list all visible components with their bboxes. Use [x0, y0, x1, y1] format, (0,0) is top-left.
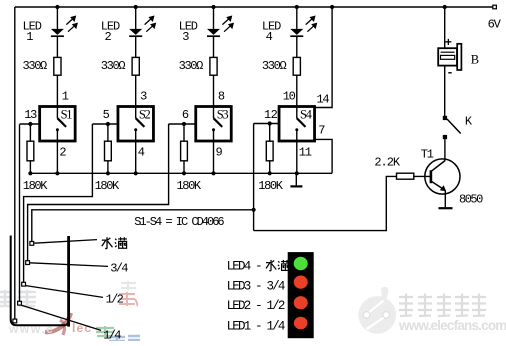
wire 180K to rail	[29, 161, 31, 174]
svg-text:5: 5	[103, 108, 110, 122]
node junction top rail LED2	[134, 5, 138, 9]
node control junction S4	[268, 121, 272, 125]
node pin14 on top rail	[330, 5, 334, 9]
switch S1 contacts	[56, 107, 66, 142]
leader 1/2	[26, 286, 103, 298]
LED D1 chain	[23, 5, 78, 107]
node 1/4 probe	[18, 301, 22, 305]
svg-text:www.elecfans.com: www.elecfans.com	[398, 318, 506, 333]
leader 3/4	[30, 263, 108, 267]
wire 180K to rail	[107, 161, 109, 174]
wire resistor to S4 box	[296, 75, 298, 106]
wire resistor to S1 box	[56, 75, 58, 106]
resistor 180K #4	[266, 141, 273, 161]
wire S4 pin 14 to +6V	[315, 7, 333, 108]
LED D4 chain	[262, 5, 317, 107]
wire S3 pin6 to 3/4 probe	[28, 124, 169, 261]
node 180K #4 on rail	[268, 171, 272, 175]
svg-text:180K: 180K	[23, 179, 48, 193]
LED LED3 symbol	[207, 29, 220, 35]
wire junction to 180K	[183, 124, 185, 141]
svg-text:330Ω: 330Ω	[262, 59, 287, 73]
node S4 output on rail	[295, 171, 299, 175]
node base-drive junction	[252, 208, 256, 212]
wire S1 control pin 13	[20, 123, 40, 125]
wire resistor to S3 box	[213, 75, 215, 106]
analog switch U1b S2 box	[118, 107, 154, 142]
node junction top rail LED3	[211, 5, 215, 9]
LED3 light arrows	[222, 16, 233, 31]
wire S2 control pin 5	[92, 123, 118, 125]
analog switch U1c S3 box	[196, 107, 232, 142]
wire S3 control pin 6	[169, 123, 196, 125]
wire S4 pin12 down	[253, 124, 255, 231]
resistor 330ohm #1	[54, 57, 61, 75]
node 1/2 probe	[22, 282, 26, 286]
svg-text:S1: S1	[61, 108, 73, 122]
watermark red swoosh	[45, 313, 71, 332]
wire to buzzer +	[444, 7, 446, 48]
wire +6V top rail	[15, 6, 493, 8]
watermark text dianzifashaoyou	[399, 294, 486, 317]
node junction top rail LED1	[55, 5, 59, 9]
svg-text:-: -	[446, 66, 452, 80]
svg-text:LED4 -: LED4 -	[227, 260, 262, 274]
node buzzer branch on top rail	[443, 5, 447, 9]
node 180K #1 on rail	[28, 171, 32, 175]
svg-text:S2: S2	[139, 108, 151, 122]
LED3 indicator (red)	[294, 276, 308, 289]
svg-text:LED1 - 1/4: LED1 - 1/4	[227, 320, 285, 334]
svg-text:12: 12	[264, 108, 278, 122]
wire S4 control pin 12	[254, 123, 279, 125]
analog switch U1d S4 box	[279, 107, 315, 142]
wire junction to 180K	[29, 124, 31, 141]
node full-level probe	[30, 242, 34, 246]
wire 180K to rail	[269, 161, 271, 174]
ground symbol (emitter)	[439, 207, 453, 209]
wire anode LED1	[56, 7, 58, 29]
wire LED2 cathode to resistor	[135, 36, 137, 57]
node control junction S1	[28, 122, 32, 126]
leader 1/4	[22, 305, 101, 330]
LED LED1 symbol	[51, 29, 64, 35]
buzzer B	[438, 44, 461, 70]
LED D2 chain	[101, 5, 156, 107]
watermark pink glyph near 1/2	[119, 292, 137, 306]
LED4 light arrows	[306, 16, 317, 31]
wire to 2.2K base resistor	[254, 176, 397, 230]
svg-text:lec: lec	[72, 321, 92, 335]
svg-text:6: 6	[182, 108, 189, 122]
svg-text:S3: S3	[217, 108, 229, 122]
wire K to collector	[444, 139, 446, 160]
svg-text:11: 11	[299, 145, 312, 159]
node S1 output on rail	[55, 171, 59, 175]
node 6V terminal	[493, 5, 497, 9]
svg-text:6V: 6V	[488, 18, 502, 32]
wire LED3 cathode to resistor	[213, 36, 215, 57]
svg-text:2.2K: 2.2K	[374, 156, 400, 170]
wire 180K to rail	[183, 161, 185, 174]
watermark faint glyph above 1/2	[121, 281, 136, 290]
switch S4 contacts	[295, 107, 305, 142]
resistor 330ohm #3	[210, 57, 217, 75]
wire emitter to ground	[444, 191, 446, 208]
wire anode LED2	[135, 7, 137, 29]
svg-text:14: 14	[317, 93, 330, 107]
watermark logo circle (bottom right)	[358, 287, 396, 334]
svg-text:13: 13	[24, 108, 37, 122]
wire junction to 180K	[269, 124, 271, 142]
node S3 output on rail	[211, 171, 215, 175]
node 180K #2 on rail	[106, 171, 110, 175]
svg-text:2: 2	[59, 145, 66, 159]
wire junction to full-level probe	[32, 210, 254, 242]
svg-text:B: B	[471, 53, 479, 67]
wire junction to 180K	[107, 124, 109, 141]
node 3/4 probe	[26, 261, 30, 265]
resistor 2.2K	[397, 173, 414, 179]
LED1 indicator (red)	[294, 317, 308, 330]
svg-text:180K: 180K	[95, 179, 120, 193]
watermark blue patch	[109, 335, 140, 341]
wire S3 output pin 9 to ground rail	[213, 141, 215, 173]
svg-text:180K: 180K	[177, 179, 202, 193]
legend LED indicator panel	[288, 252, 314, 338]
switch K	[443, 116, 461, 139]
svg-text:1/2: 1/2	[106, 293, 124, 307]
svg-text:LED2 - 1/2: LED2 - 1/2	[227, 299, 285, 313]
wire 2.2K to base	[414, 175, 430, 177]
svg-text:330Ω: 330Ω	[23, 59, 48, 73]
svg-text:9: 9	[216, 145, 223, 159]
svg-text:3/4: 3/4	[110, 262, 128, 276]
watermark fragment gray glyphs (left edge)	[0, 290, 36, 306]
resistor 180K #2	[105, 141, 112, 161]
wire S1 pin13 to 1/4 probe	[19, 124, 21, 301]
LED D3 chain	[179, 5, 234, 107]
wire ground rail	[30, 172, 332, 174]
svg-text:4: 4	[138, 145, 145, 159]
svg-text:330Ω: 330Ω	[179, 59, 204, 73]
LED2 light arrows	[145, 16, 156, 31]
LED2 indicator (red)	[294, 296, 308, 309]
resistor 180K #1	[27, 141, 34, 161]
svg-text:180K: 180K	[258, 179, 283, 193]
wire anode LED3	[213, 7, 215, 29]
node S2 output on rail	[134, 171, 138, 175]
wire resistor to S2 box	[135, 75, 137, 106]
wire LED1 cathode to resistor	[56, 36, 58, 57]
LED LED4 symbol	[290, 29, 303, 35]
LED4 indicator (green)	[294, 257, 308, 271]
wire LED4 cathode to resistor	[296, 36, 298, 57]
svg-text:S1-S4 = IC CD4066: S1-S4 = IC CD4066	[134, 215, 224, 229]
wire S1 output pin 2 to ground rail	[56, 141, 58, 173]
svg-text:8050: 8050	[459, 193, 483, 207]
svg-text:T1: T1	[421, 147, 434, 161]
water tank container	[11, 236, 69, 327]
switch S3 contacts	[212, 107, 222, 142]
svg-text:10: 10	[283, 89, 296, 103]
node common probe	[13, 319, 17, 323]
wire S4 output pin 11 to ground rail	[296, 141, 298, 173]
label full-level (shui yan)	[102, 237, 127, 248]
node junction top rail LED4	[295, 5, 299, 9]
wire anode LED4	[296, 7, 298, 29]
svg-text:330Ω: 330Ω	[101, 59, 126, 73]
LED1 light arrows	[66, 16, 77, 31]
leader full level	[34, 240, 97, 244]
resistor 180K #3	[181, 141, 188, 161]
transistor T1 8050	[425, 159, 460, 194]
legend label full-level hanzi	[266, 260, 289, 271]
wire S4 pin 7	[315, 139, 333, 173]
svg-text:LED3 - 3/4: LED3 - 3/4	[227, 280, 285, 294]
node control junction S3	[182, 122, 186, 126]
node 180K #3 on rail	[182, 171, 186, 175]
wire S2 output pin 4 to ground rail	[135, 141, 137, 173]
resistor 330ohm #4	[293, 57, 300, 75]
wire S2 pin5 to 1/2 probe	[24, 124, 93, 282]
switch S2 contacts	[134, 107, 144, 142]
resistor 330ohm #2	[132, 57, 139, 75]
svg-text:1/4: 1/4	[103, 329, 121, 341]
wire buzzer to switch K	[444, 66, 446, 116]
watermark green glyph near 1/4	[96, 326, 114, 336]
wire common electrode drop (left border, +6V to common probe)	[14, 7, 16, 319]
ground symbol (S4 pin11)	[290, 173, 302, 186]
node control junction S2	[106, 122, 110, 126]
LED LED2 symbol	[129, 29, 142, 35]
analog switch U1a S1 box	[40, 107, 76, 142]
